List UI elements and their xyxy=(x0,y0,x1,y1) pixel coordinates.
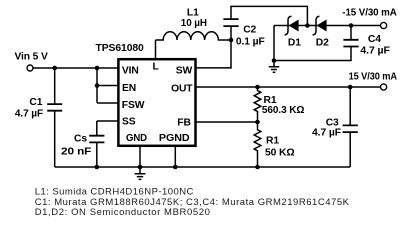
svg-text:-15 V/30 mA: -15 V/30 mA xyxy=(342,7,397,18)
svg-text:SS: SS xyxy=(122,116,136,127)
wire SS pin xyxy=(97,121,118,136)
junction node charge-pump ground xyxy=(272,58,277,63)
svg-text:D1,D2: ON Semiconductor MBR052: D1,D2: ON Semiconductor MBR0520 xyxy=(35,207,210,218)
junction node PGND/rail xyxy=(173,165,178,170)
wire EN/FSW tie vertical xyxy=(96,68,98,103)
wire EN pin xyxy=(97,85,118,87)
wire C4 top lead xyxy=(350,26,352,40)
svg-text:TPS61080: TPS61080 xyxy=(96,43,145,54)
svg-text:D1: D1 xyxy=(288,38,301,49)
svg-text:50 KΩ: 50 KΩ xyxy=(265,148,295,159)
junction node GND/rail xyxy=(138,165,143,170)
svg-text:VIN: VIN xyxy=(122,65,139,76)
terminal Vin input xyxy=(27,65,33,71)
svg-text:20 nF: 20 nF xyxy=(61,147,91,158)
svg-text:GND: GND xyxy=(126,133,147,144)
junction node C3 top xyxy=(348,85,353,90)
wire L pin up xyxy=(155,40,157,59)
inductor L1 coil xyxy=(156,32,232,40)
capacitor C1 plates xyxy=(47,104,62,111)
svg-text:L: L xyxy=(153,61,159,72)
ground symbol stub under rail xyxy=(139,167,141,174)
wire FSW pin xyxy=(97,102,118,104)
junction node OUT/R1 xyxy=(255,85,260,90)
ground symbol stub right charge-pump xyxy=(273,61,275,67)
terminal 15V output xyxy=(381,84,387,90)
svg-text:4.7 µF: 4.7 µF xyxy=(312,127,341,138)
wire Cs bottom to ground rail xyxy=(96,142,98,167)
svg-text:15 V/30 mA: 15 V/30 mA xyxy=(349,71,398,82)
wire SW pin to C2 node xyxy=(196,26,232,68)
svg-text:OUT: OUT xyxy=(171,83,193,94)
capacitor C2 plates xyxy=(223,19,238,26)
wire GND pin down xyxy=(139,146,141,167)
svg-text:0.1 µF: 0.1 µF xyxy=(236,37,265,48)
junction node R2/rail xyxy=(255,165,260,170)
svg-text:FSW: FSW xyxy=(122,100,145,111)
svg-text:C1: C1 xyxy=(29,97,42,108)
svg-text:FB: FB xyxy=(177,118,191,129)
terminal -15V output xyxy=(381,22,387,28)
wire PGND pin down xyxy=(174,146,176,167)
wire diode row xyxy=(274,25,380,27)
wire C3 branch vertical xyxy=(349,87,351,167)
junction node EN tie top xyxy=(95,66,100,71)
wire OUT to 15V terminal xyxy=(196,86,381,88)
svg-text:560.3 KΩ: 560.3 KΩ xyxy=(262,105,305,116)
svg-text:EN: EN xyxy=(122,83,136,94)
svg-text:D2: D2 xyxy=(316,38,329,49)
ground symbol charge-pump xyxy=(269,67,279,73)
svg-text:10 µH: 10 µH xyxy=(181,18,207,29)
wire ground rail xyxy=(55,166,351,168)
wire D1 anode-side down to ground node xyxy=(273,26,275,61)
wire FB pin to divider xyxy=(196,121,258,123)
svg-text:Cs: Cs xyxy=(74,134,87,145)
junction node EN tie xyxy=(95,83,100,88)
svg-text:PGND: PGND xyxy=(159,133,190,144)
svg-text:SW: SW xyxy=(176,66,193,77)
wire C2 top to charge-pump rail xyxy=(231,6,307,25)
resistor R1 50K zigzag xyxy=(254,122,261,167)
junction node C1/Vin xyxy=(52,66,57,71)
diode D2 schottky xyxy=(313,16,327,35)
wire Vin to VIN pin xyxy=(33,67,118,69)
svg-text:4.7 µF: 4.7 µF xyxy=(360,46,389,57)
junction node D1-D2 xyxy=(305,23,310,28)
capacitor C4 plates xyxy=(343,40,358,47)
capacitor C3 plates xyxy=(343,125,358,132)
IC U1 TPS61080 body xyxy=(118,59,195,146)
resistor R1 560.3K zigzag xyxy=(254,87,261,122)
ground symbol under IC xyxy=(135,174,146,180)
svg-text:C4: C4 xyxy=(368,34,381,45)
capacitor Cs plates xyxy=(89,136,104,143)
junction node L1/C2/SW xyxy=(229,38,234,43)
svg-text:4.7 µF: 4.7 µF xyxy=(15,109,43,120)
svg-text:Vin 5 V: Vin 5 V xyxy=(15,51,48,62)
junction node FB/divider xyxy=(255,120,260,125)
svg-text:R1: R1 xyxy=(266,136,279,147)
wire C4 return to ground node xyxy=(274,47,351,61)
junction node Cs/rail xyxy=(95,165,100,170)
svg-text:C2: C2 xyxy=(243,24,256,35)
wire C1 branch vertical xyxy=(54,68,56,167)
diode D1 schottky xyxy=(285,16,299,35)
junction node C4 top xyxy=(349,23,354,28)
